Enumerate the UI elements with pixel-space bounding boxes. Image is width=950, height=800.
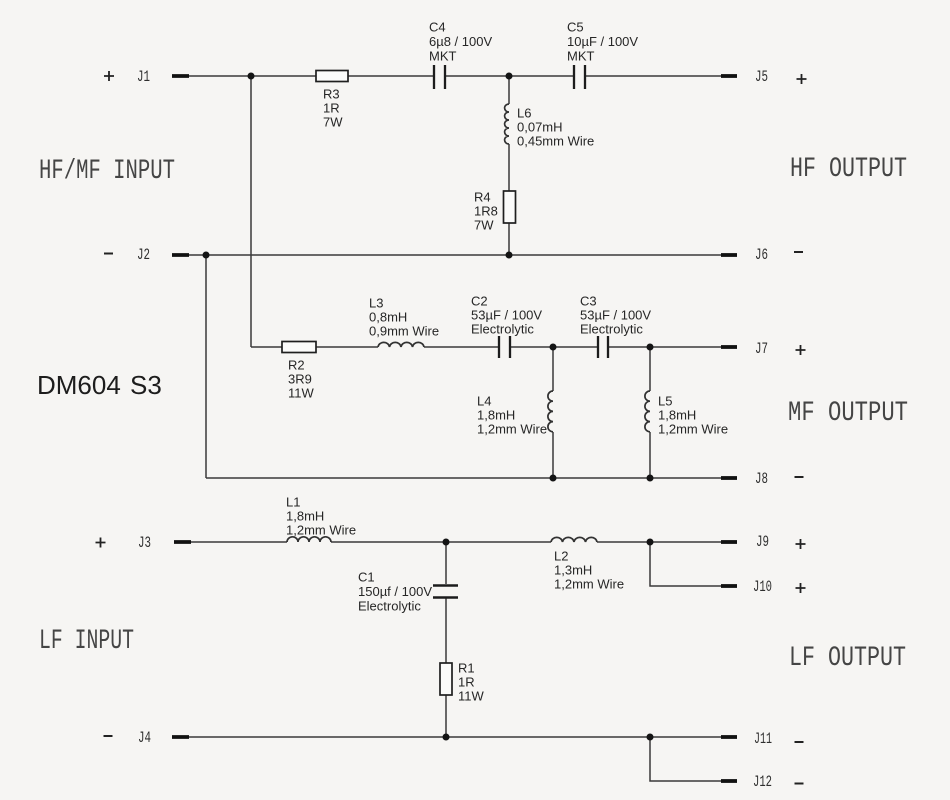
svg-text:53µF / 100V: 53µF / 100V [471, 308, 542, 323]
svg-text:L5: L5 [658, 394, 672, 409]
capacitor C5 plates [574, 65, 585, 89]
svg-text:1,8mH: 1,8mH [658, 408, 696, 423]
plus sign J3 [96, 538, 106, 548]
svg-text:J5: J5 [755, 68, 768, 86]
node J9/J10 junction [647, 539, 654, 546]
node R1 bottom junction [443, 734, 450, 741]
capacitor C4 plates [434, 65, 445, 89]
resistor R3 [316, 71, 348, 82]
minus sign J6 [794, 251, 803, 253]
node C4/C5 junction [506, 73, 513, 80]
wire HF top rail segments (y=76) [188, 75, 721, 77]
terminal stub J11 [721, 735, 737, 739]
minus sign J11 [795, 741, 804, 743]
svg-text:C2: C2 [471, 294, 488, 309]
svg-text:J6: J6 [755, 246, 768, 264]
node J2 junction [203, 252, 210, 259]
node J11/J12 junction [647, 734, 654, 741]
capacitor C1 plates [433, 586, 458, 598]
svg-text:MF OUTPUT: MF OUTPUT [788, 398, 908, 429]
terminal stub J12 [721, 779, 737, 783]
svg-text:J4: J4 [138, 729, 151, 747]
svg-text:1,8mH: 1,8mH [477, 408, 515, 423]
svg-text:53µF / 100V: 53µF / 100V [580, 308, 651, 323]
inductor L4 coil [548, 391, 553, 432]
svg-text:0,9mm Wire: 0,9mm Wire [369, 324, 439, 339]
svg-text:J9: J9 [756, 533, 769, 551]
wire J2/J6 rail (y=255) [188, 254, 721, 256]
terminal stub J10 [721, 584, 737, 588]
plus sign J5 [797, 74, 807, 84]
wire vertical L5 branch [649, 347, 651, 478]
minus sign J12 [795, 783, 804, 785]
inductor L2 coil [551, 537, 597, 542]
svg-text:S3: S3 [130, 370, 162, 400]
terminal stub J5 [721, 74, 737, 78]
wire J4 rail (y=737) [188, 736, 721, 738]
node J1 junction [248, 73, 255, 80]
svg-text:C4: C4 [429, 20, 446, 35]
svg-text:J11: J11 [754, 730, 772, 748]
svg-text:Electrolytic: Electrolytic [471, 322, 534, 337]
svg-text:6µ8 / 100V: 6µ8 / 100V [429, 34, 492, 49]
node R4 bottom junction [506, 252, 513, 259]
svg-text:0,8mH: 0,8mH [369, 310, 407, 325]
svg-text:1,2mm Wire: 1,2mm Wire [477, 422, 547, 437]
svg-text:10µF / 100V: 10µF / 100V [567, 34, 638, 49]
node C2/L4 junction [550, 344, 557, 351]
svg-text:R2: R2 [288, 358, 305, 373]
svg-text:1R: 1R [323, 101, 340, 116]
wire MF rail (y=347) [251, 346, 721, 348]
wire J8 rail (y=478) [206, 477, 721, 479]
inductor L6 coil [505, 104, 509, 144]
inductor L1 coil [287, 537, 331, 542]
resistor R4 [504, 191, 516, 223]
svg-text:J2: J2 [137, 246, 150, 264]
svg-text:MKT: MKT [567, 49, 595, 64]
svg-text:J3: J3 [138, 534, 151, 552]
svg-text:C1: C1 [358, 570, 375, 585]
svg-text:7W: 7W [474, 218, 494, 233]
node L4 bottom junction [550, 475, 557, 482]
plus sign J9 [796, 539, 806, 549]
terminal stub J4 [172, 735, 189, 739]
svg-text:C5: C5 [567, 20, 584, 35]
svg-text:Electrolytic: Electrolytic [358, 599, 421, 614]
svg-text:LF OUTPUT: LF OUTPUT [789, 643, 906, 674]
terminal stub J3 [174, 540, 191, 544]
svg-text:1,2mm Wire: 1,2mm Wire [554, 577, 624, 592]
svg-text:Electrolytic: Electrolytic [580, 322, 643, 337]
wire vertical L6/R4 branch [508, 76, 510, 255]
inductor L3 coil [378, 342, 424, 347]
svg-text:R1: R1 [458, 661, 475, 676]
svg-text:DM604: DM604 [37, 370, 121, 400]
wire J12 stub [650, 737, 721, 781]
inductor L5 coil [645, 391, 650, 432]
resistor R1 [440, 663, 452, 695]
node C3/L5 junction [647, 344, 654, 351]
svg-text:LF INPUT: LF INPUT [39, 626, 134, 657]
svg-text:7W: 7W [323, 115, 343, 130]
svg-text:R4: R4 [474, 190, 491, 205]
svg-text:L1: L1 [286, 495, 300, 510]
svg-text:11W: 11W [458, 689, 484, 704]
minus sign J2 [104, 253, 113, 255]
svg-text:L3: L3 [369, 296, 383, 311]
svg-text:L6: L6 [517, 106, 531, 121]
plus sign J10 [796, 583, 806, 593]
svg-text:C3: C3 [580, 294, 597, 309]
svg-text:3R9: 3R9 [288, 372, 312, 387]
svg-text:HF/MF INPUT: HF/MF INPUT [39, 156, 175, 187]
node L5 bottom junction [647, 475, 654, 482]
svg-text:L2: L2 [554, 549, 568, 564]
minus sign J8 [795, 476, 804, 478]
capacitor C3 plates [598, 336, 608, 358]
svg-text:1,2mm Wire: 1,2mm Wire [286, 523, 356, 538]
minus sign J4 [104, 735, 113, 737]
svg-text:J8: J8 [755, 470, 768, 488]
wire vertical from J1 node to MF rail [250, 76, 252, 347]
node C1 top junction [443, 539, 450, 546]
plus sign J1 [104, 71, 114, 81]
svg-text:R3: R3 [323, 87, 340, 102]
wire vertical L4 branch [552, 347, 554, 478]
svg-text:1,8mH: 1,8mH [286, 509, 324, 524]
wire vertical from J2 node to J8 rail [205, 255, 207, 478]
svg-text:J1: J1 [137, 68, 150, 86]
wire J10 stub [650, 542, 721, 586]
resistor R2 [282, 342, 316, 353]
svg-text:HF OUTPUT: HF OUTPUT [790, 154, 907, 185]
terminal stub J7 [721, 345, 737, 349]
svg-text:1,3mH: 1,3mH [554, 563, 592, 578]
terminal stub J6 [721, 253, 737, 257]
svg-text:1R8: 1R8 [474, 204, 498, 219]
svg-text:150µf / 100V: 150µf / 100V [358, 584, 432, 599]
svg-text:J7: J7 [755, 340, 768, 358]
svg-text:L4: L4 [477, 394, 491, 409]
terminal stub J9 [721, 540, 737, 544]
capacitor C2 plates [499, 336, 510, 358]
terminal stub J1 [172, 74, 189, 78]
terminal stub J2 [172, 253, 189, 257]
svg-text:11W: 11W [288, 386, 314, 401]
terminal stub J8 [721, 476, 737, 480]
svg-text:1R: 1R [458, 675, 475, 690]
svg-text:0,45mm Wire: 0,45mm Wire [517, 134, 594, 149]
wire vertical C1/R1 branch [445, 542, 447, 737]
svg-text:0,07mH: 0,07mH [517, 120, 563, 135]
svg-text:1,2mm Wire: 1,2mm Wire [658, 422, 728, 437]
wire LF top rail (y=542) [188, 541, 721, 543]
svg-text:MKT: MKT [429, 49, 457, 64]
plus sign J7 [796, 345, 806, 355]
svg-text:J10: J10 [753, 578, 772, 596]
svg-text:J12: J12 [753, 773, 772, 791]
